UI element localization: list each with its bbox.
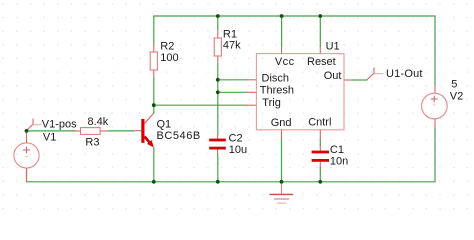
wire Gnd xyxy=(281,139,283,182)
svg-text:Thresh: Thresh xyxy=(260,85,294,97)
svg-text:Reset: Reset xyxy=(307,56,336,68)
node junction top rail Vcc xyxy=(280,14,284,18)
node junction top rail R1 xyxy=(216,14,220,18)
node junction emitter rail xyxy=(152,180,156,184)
node junction top rail Reset xyxy=(318,14,322,18)
voltage source V1 xyxy=(14,131,39,182)
wire Q1 emitter xyxy=(153,147,155,182)
wire V1 to R3 xyxy=(27,130,76,132)
svg-text:47k: 47k xyxy=(223,39,241,51)
node junction C2 rail xyxy=(216,180,220,184)
wire Trig from node to pin xyxy=(154,104,247,106)
wire Cntrl to C1 xyxy=(319,139,321,147)
wire bottom rail xyxy=(27,128,436,182)
svg-text:Out: Out xyxy=(324,70,342,82)
resistor R1 xyxy=(214,28,241,64)
wire top rail xyxy=(154,16,435,86)
svg-text:Disch: Disch xyxy=(262,72,290,84)
resistor R3 xyxy=(73,116,109,148)
capacitor C2 xyxy=(209,132,247,156)
svg-text:U1-Out: U1-Out xyxy=(386,68,423,80)
svg-text:10u: 10u xyxy=(229,144,247,156)
wire Disch xyxy=(218,79,247,81)
node junction Thresh xyxy=(216,90,220,94)
pin Vcc xyxy=(281,46,283,54)
svg-text:10n: 10n xyxy=(330,156,348,168)
wire R2 bottom to node xyxy=(153,77,155,105)
ground xyxy=(270,182,294,203)
svg-text:5: 5 xyxy=(451,79,457,91)
svg-text:BC546B: BC546B xyxy=(157,130,201,142)
IC U1 (555 timer) box xyxy=(256,41,344,130)
resistor R2 xyxy=(150,41,178,78)
wire C1 to rail xyxy=(319,167,321,182)
svg-text:Cntrl: Cntrl xyxy=(308,117,331,129)
wire Thresh xyxy=(218,91,247,93)
node junction Disch xyxy=(216,78,220,82)
node V1-pos label xyxy=(27,118,78,143)
svg-text:Vcc: Vcc xyxy=(275,56,295,68)
svg-text:R2: R2 xyxy=(160,41,174,53)
pin Disch xyxy=(246,79,256,81)
svg-text:U1: U1 xyxy=(326,41,340,53)
svg-text:V1-pos: V1-pos xyxy=(42,118,77,130)
svg-text:Trig: Trig xyxy=(262,97,281,109)
node junction ground rail xyxy=(280,180,284,184)
wire Out xyxy=(352,79,368,81)
pin Cntrl xyxy=(319,130,321,140)
svg-text:8.4k: 8.4k xyxy=(88,116,109,128)
svg-text:C1: C1 xyxy=(330,144,344,156)
wire Q1 collector xyxy=(153,105,155,113)
node junction R2-Q1-Trig xyxy=(152,103,156,107)
node U1-Out label xyxy=(367,68,423,81)
pin Out xyxy=(344,79,353,81)
wire C2 to rail xyxy=(217,154,219,182)
pin Trig xyxy=(246,104,256,106)
transistor Q1 xyxy=(133,113,201,148)
wire R1 bottom to Disch/Thresh column xyxy=(217,64,219,135)
svg-text:Q1: Q1 xyxy=(157,118,172,130)
svg-text:V2: V2 xyxy=(450,90,463,102)
capacitor C1 xyxy=(312,144,349,168)
pin Reset xyxy=(319,46,321,54)
node junction V1 top xyxy=(25,129,29,133)
wire R1 top xyxy=(217,16,219,30)
svg-text:100: 100 xyxy=(160,52,178,64)
wire R3 to Q1 base xyxy=(108,130,135,132)
svg-text:C2: C2 xyxy=(229,132,243,144)
svg-text:V1: V1 xyxy=(43,131,56,143)
wire Reset xyxy=(319,16,321,47)
pin Thresh xyxy=(246,91,256,93)
pin Gnd xyxy=(281,130,283,140)
wire Vcc xyxy=(281,16,283,47)
node junction C1 rail xyxy=(318,180,322,184)
svg-text:Gnd: Gnd xyxy=(271,117,292,129)
voltage source V2 xyxy=(422,79,464,129)
svg-text:R3: R3 xyxy=(85,136,99,148)
